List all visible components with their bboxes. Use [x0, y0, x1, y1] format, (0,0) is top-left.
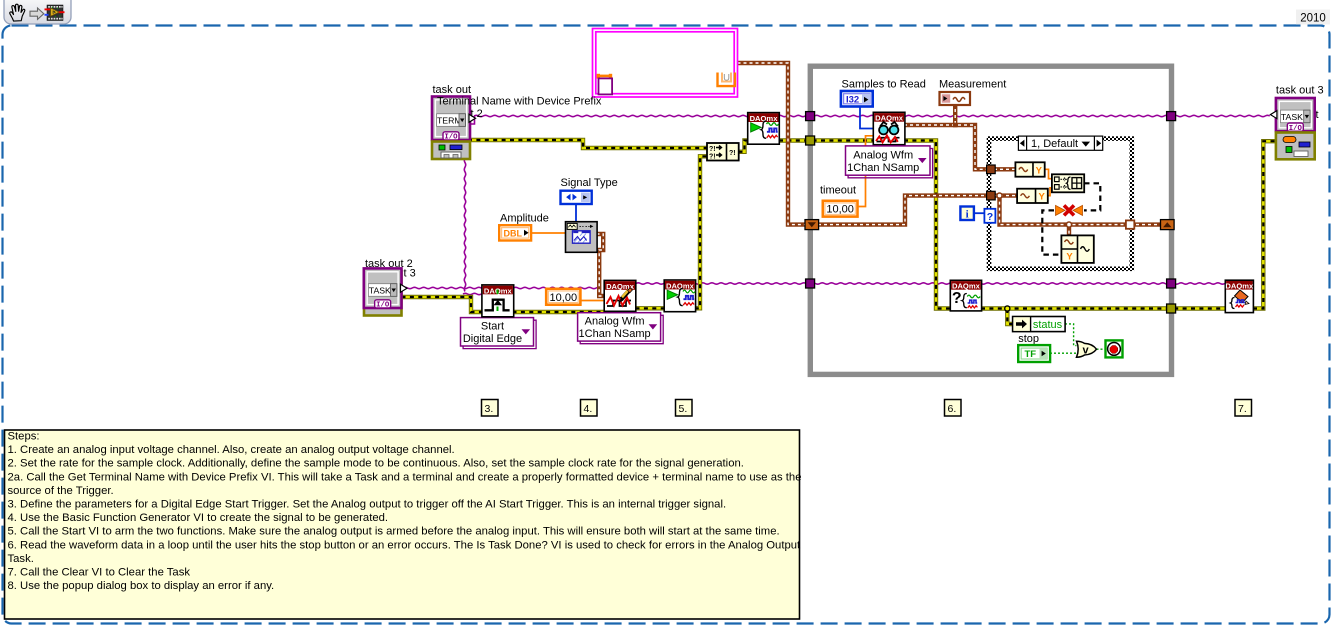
case tunnel brown 2: [987, 191, 996, 200]
timeout wire 2 (loop): [858, 136, 875, 207]
label fragment t 2: [471, 108, 483, 120]
error wire merge-node to Start1: [739, 141, 749, 152]
step label 3.: [482, 400, 499, 417]
control TERM (task out): [432, 97, 476, 142]
label Samples to Read: [842, 79, 926, 91]
svg-text:DAQmx: DAQmx: [875, 114, 904, 123]
svg-text:4. Use the Basic Function Gen: 4. Use the Basic Function Generator VI t…: [8, 512, 389, 524]
svg-text:TF: TF: [1025, 349, 1037, 360]
tunnel error right: [1167, 304, 1176, 313]
U icon inside top structure: [718, 73, 735, 87]
svg-text:7. Call the Clear VI to Clear: 7. Call the Clear VI to Clear the Task: [8, 567, 191, 579]
constant 10,00 (timeout): [823, 201, 858, 217]
svg-text:?!: ?!: [709, 146, 716, 153]
toolbar hand icon: [10, 4, 25, 21]
svg-text:5.: 5.: [679, 403, 688, 415]
error wire TASK2 chain to Write: [402, 297, 605, 312]
svg-text:10,00: 10,00: [826, 204, 854, 216]
control I32: [841, 91, 873, 107]
tunnel purple bottom-right: [1167, 279, 1176, 288]
DAQmx Start VI (AI): [748, 113, 780, 145]
svg-text:?!: ?!: [709, 154, 716, 161]
svg-text:Start: Start: [481, 321, 504, 333]
svg-text:3.: 3.: [485, 403, 494, 415]
svg-text:2. Set the rate for the sampl: 2. Set the rate for the sample clock. Ad…: [8, 458, 744, 470]
svg-text:1. Create an analog input vol: 1. Create an analog input voltage channe…: [8, 444, 455, 456]
ring Analog Wfm 1Chan NSamp (write): [578, 313, 664, 344]
svg-text:6.: 6.: [948, 403, 957, 415]
subVI Get Terminal Name: [432, 142, 470, 160]
svg-text:Analog Wfm: Analog Wfm: [853, 149, 913, 161]
subVI under TASK2 (sliver): [364, 271, 402, 316]
shift register left: [805, 220, 819, 230]
Or function: [1077, 341, 1097, 357]
svg-text:Amplitude: Amplitude: [500, 213, 549, 225]
svg-text:Steps:: Steps:: [8, 431, 40, 443]
svg-text:source of the Trigger.: source of the Trigger.: [8, 485, 114, 497]
DAQmx Is Task Done VI: [950, 280, 981, 311]
toolbar vi icon: [45, 5, 65, 21]
task wire AO right (purple): [636, 283, 1225, 284]
index-bundle array node: [1052, 174, 1084, 192]
label fragment t (right): [1316, 109, 1319, 121]
waveform wire case tunnel1 to unbundle1: [994, 167, 1016, 171]
svg-text:stop: stop: [1018, 333, 1039, 345]
svg-text:4.: 4.: [584, 403, 593, 415]
step label 7.: [1235, 400, 1252, 417]
subVI error handler: [1276, 133, 1315, 160]
case selector label: [1018, 136, 1102, 150]
svg-text:timeout: timeout: [820, 185, 856, 197]
svg-text:6. Read the waveform data in: 6. Read the waveform data in a loop unti…: [8, 539, 802, 551]
svg-text:Y: Y: [1066, 252, 1073, 263]
timeout wire 1: [580, 300, 605, 302]
svg-text:Y: Y: [1039, 192, 1046, 203]
build waveform node: [1061, 235, 1093, 263]
control TASK2 (task out 2): [364, 268, 407, 309]
label timeout: [820, 185, 856, 197]
step label 6.: [945, 400, 962, 417]
svg-text:3. Define the parameters for: 3. Define the parameters for a Digital E…: [8, 499, 727, 511]
error merge node: [707, 143, 739, 161]
enum Signal Type: [561, 191, 592, 204]
label task out 3: [1276, 85, 1324, 97]
label task out: [433, 84, 472, 96]
svg-text:2010: 2010: [1300, 13, 1326, 25]
svg-text:TERM: TERM: [437, 116, 462, 126]
svg-text:i: i: [966, 208, 969, 220]
amplitude wire: [531, 232, 567, 234]
year label 2010: [1296, 10, 1330, 25]
svg-text:1, Default: 1, Default: [1031, 138, 1078, 150]
DAQmx Clear VI: [1225, 280, 1254, 312]
constant 10,00 (rate): [546, 289, 580, 305]
svg-text:status: status: [1033, 319, 1063, 331]
svg-text:7.: 7.: [1238, 403, 1247, 415]
case tunnel output (hollow): [1126, 220, 1134, 228]
label Terminal Name with Device Prefix: [437, 96, 602, 108]
svg-text:I32: I32: [846, 95, 859, 106]
ring Analog Wfm 1Chan NSamp (read): [846, 146, 933, 178]
DAQmx Read VI: [873, 112, 905, 144]
tunnel error left: [806, 136, 815, 145]
svg-text:t 2: t 2: [471, 108, 483, 120]
DAQmx Write VI: [604, 280, 636, 311]
case selector terminal: [984, 209, 995, 223]
unbundle status node: [1013, 317, 1066, 332]
loop condition terminal: [1106, 340, 1123, 357]
error wire Start1 to Read: [779, 138, 875, 142]
DAQmx Start VI (AO): [664, 280, 695, 312]
task wire AI (top, purple): [468, 115, 1270, 124]
svg-text:Terminal Name with Device Pref: Terminal Name with Device Prefix: [437, 96, 602, 108]
svg-text:t 3: t 3: [404, 268, 416, 280]
boolean wire stop to Or: [1050, 352, 1077, 354]
constant DBL: [499, 225, 531, 240]
error wire Start2 riser to merge node: [695, 156, 708, 308]
waveform wire shift register to case tunnel 2: [806, 196, 987, 225]
queue constant inside top structure: [597, 74, 613, 95]
svg-text:DBL: DBL: [504, 229, 523, 239]
svg-text:DAQmx: DAQmx: [1225, 282, 1254, 291]
svg-text:1Chan NSamp: 1Chan NSamp: [579, 328, 651, 340]
boolean wire Or to loop condition: [1097, 348, 1107, 350]
unbundle waveform Y 2: [1017, 189, 1048, 203]
error wire Clear to error-handler subVI: [1253, 141, 1277, 308]
svg-text:Y: Y: [1036, 165, 1043, 176]
label Signal Type: [561, 177, 618, 189]
svg-text:Digital Edge: Digital Edge: [463, 333, 522, 345]
orange wire unbundle1.Y to index node: [1045, 169, 1053, 178]
svg-text:v: v: [1082, 345, 1089, 357]
error wire IsTaskDone to right tunnel to Clear: [981, 306, 1226, 310]
tunnel purple top-left: [806, 112, 815, 121]
waveform wire BFG to Write: [597, 234, 606, 296]
iteration terminal: [960, 207, 974, 221]
waveform wire case tunnel2 to unbundle2: [994, 193, 1127, 236]
I32 wire to Read: [860, 106, 874, 129]
svg-text:2a. Call the Get Terminal Nam: 2a. Call the Get Terminal Name with Devi…: [8, 471, 802, 483]
svg-text:task out 3: task out 3: [1276, 85, 1324, 97]
error wire Write to Start2: [636, 306, 666, 310]
svg-text:task out: task out: [433, 84, 472, 96]
control TASK3 (task out 3): [1270, 98, 1314, 133]
svg-text:TASK: TASK: [1281, 112, 1303, 122]
shift register right: [1161, 220, 1175, 230]
svg-text:?!: ?!: [729, 150, 736, 157]
indicator Measurement: [940, 92, 971, 105]
svg-text:Samples to Read: Samples to Read: [842, 79, 926, 91]
svg-text:5. Call the Start VI to arm t: 5. Call the Start VI to arm the two func…: [8, 526, 780, 538]
unbundle waveform Y 1: [1015, 162, 1044, 176]
subVI Basic Function Generator: [566, 222, 598, 253]
waveform wire case out tunnel to right shift register: [1130, 222, 1162, 226]
tunnel purple top-right: [1167, 112, 1176, 121]
signal type wire: [575, 203, 577, 222]
svg-text:I/O: I/O: [376, 302, 390, 310]
svg-text:Analog Wfm: Analog Wfm: [585, 316, 645, 328]
broken wire X: [1056, 205, 1083, 215]
control stop TF: [1018, 345, 1050, 362]
svg-text:U: U: [723, 73, 730, 84]
task wire AO from TASK2 (purple): [403, 287, 601, 288]
while loop border: [810, 66, 1171, 374]
error wire Read to IsTaskDone: [904, 141, 951, 309]
svg-text:8. Use the popup dialog box t: 8. Use the popup dialog box to display a…: [8, 580, 275, 592]
case tunnel brown 1: [987, 165, 996, 174]
case structure border: [989, 139, 1132, 269]
label stop: [1018, 333, 1039, 345]
svg-text:Task.: Task.: [8, 553, 34, 565]
toolbar tab: [4, 0, 71, 24]
tunnel purple bottom-left: [806, 279, 815, 288]
label Measurement: [939, 79, 1006, 91]
waveform wire Read to Measurement and case tunnel: [904, 105, 987, 170]
svg-text:1Chan NSamp: 1Chan NSamp: [847, 162, 919, 174]
label task out 2: [365, 258, 413, 270]
waveform wire from top structure to left shift register: [738, 63, 807, 225]
svg-text:?: ?: [987, 211, 993, 223]
svg-text:10,00: 10,00: [550, 292, 578, 304]
sticky note with steps: [5, 430, 802, 619]
svg-text:Signal Type: Signal Type: [561, 177, 618, 189]
broken wire dashed (index node to X): [1084, 183, 1100, 210]
top structure (magenta double frame): [593, 29, 738, 98]
DAQmx Trigger VI: [482, 285, 514, 317]
svg-text:Measurement: Measurement: [939, 79, 1006, 91]
svg-text:TASK: TASK: [369, 285, 391, 295]
step label 4.: [581, 400, 598, 417]
label fragment t 3: [404, 268, 416, 280]
boolean wire status to Or: [1065, 324, 1077, 346]
broken wire dashed (X to bundle): [1042, 210, 1062, 254]
svg-text:?: ?: [952, 290, 962, 307]
terminal name wire (purple vertical): [463, 158, 481, 295]
step label 5.: [676, 400, 693, 417]
iteration wire to case selector: [974, 212, 985, 214]
error wire branch to status unbundle: [1005, 306, 1014, 324]
error wire from Terminal-Name subVI: [468, 140, 707, 148]
ring Start Digital Edge: [461, 318, 537, 349]
toolbar arrow icon: [30, 8, 44, 19]
orange wire unbundle2.Y to index node: [1048, 188, 1053, 196]
label Amplitude: [500, 213, 549, 225]
